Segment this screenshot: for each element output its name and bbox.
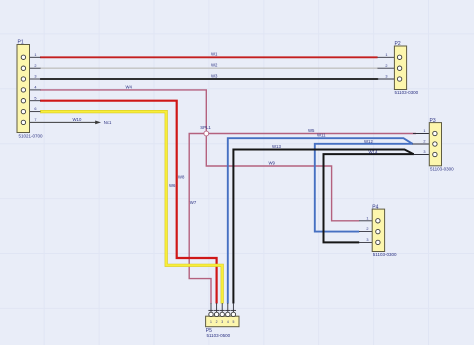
svg-text:2: 2	[366, 227, 368, 231]
svg-text:Nc1: Nc1	[104, 120, 112, 125]
svg-text:5: 5	[232, 320, 234, 324]
svg-text:4: 4	[227, 320, 229, 324]
svg-text:P1: P1	[18, 40, 24, 46]
svg-text:W11: W11	[317, 133, 326, 138]
svg-text:SPL1: SPL1	[200, 125, 211, 130]
svg-text:7: 7	[34, 118, 36, 122]
wire W6 (yellow) P1.6 to P5.3	[40, 112, 222, 304]
wire W8 (red) P1.5 to P5.2	[40, 101, 217, 304]
node NC1 (no-connect arrow)	[95, 120, 112, 125]
svg-text:W13: W13	[272, 144, 281, 149]
svg-text:P2: P2	[395, 41, 401, 47]
svg-text:51103-0300: 51103-0300	[373, 252, 397, 257]
svg-text:W4: W4	[126, 84, 133, 89]
svg-text:51021-0700: 51021-0700	[19, 134, 44, 139]
connector P2	[378, 41, 419, 95]
svg-text:1: 1	[385, 53, 387, 57]
svg-text:1: 1	[366, 216, 368, 220]
wire W1 (red) P1.1 to P2.1	[40, 52, 378, 58]
svg-text:4: 4	[34, 86, 36, 90]
svg-text:W12: W12	[364, 139, 373, 144]
svg-text:6: 6	[34, 107, 36, 111]
svg-text:2: 2	[385, 64, 387, 68]
svg-text:W2: W2	[211, 63, 218, 68]
svg-text:W6: W6	[169, 183, 176, 188]
svg-text:51103-0300: 51103-0300	[430, 166, 454, 171]
svg-text:1: 1	[34, 53, 36, 57]
svg-text:1: 1	[423, 129, 425, 133]
svg-text:W10: W10	[73, 117, 82, 122]
svg-text:W14: W14	[369, 150, 378, 155]
wire W14 (black) P4.3 to P3.3	[324, 150, 415, 243]
svg-text:2: 2	[423, 140, 425, 144]
svg-text:P4: P4	[372, 204, 378, 210]
svg-text:2: 2	[34, 64, 36, 68]
svg-text:W9: W9	[269, 160, 276, 165]
svg-text:W7: W7	[190, 200, 197, 205]
wire W5 (pink) SPL1 to P3.1	[206, 128, 416, 134]
connector P4	[359, 204, 397, 257]
connector P1	[17, 40, 43, 139]
connector P3	[413, 118, 455, 172]
svg-text:P3: P3	[430, 118, 436, 124]
svg-text:W8: W8	[178, 174, 185, 179]
svg-text:3: 3	[221, 320, 223, 324]
svg-text:3: 3	[366, 238, 368, 242]
wire W3 (black) P1.3 to P2.3	[40, 73, 378, 79]
svg-text:51103-0500: 51103-0500	[207, 333, 231, 338]
svg-text:1: 1	[210, 320, 212, 324]
svg-text:W3: W3	[211, 73, 218, 78]
svg-text:W1: W1	[211, 52, 218, 57]
wire W12 (blue) P4.2 to P3.2	[315, 139, 413, 231]
svg-text:2: 2	[216, 320, 218, 324]
wire W10 P1.7 to NC1	[26, 117, 96, 122]
svg-text:3: 3	[423, 150, 425, 154]
wire W9 (pink) SPL1 to P4.1	[206, 134, 359, 221]
svg-text:3: 3	[385, 75, 387, 79]
svg-text:W5: W5	[308, 128, 315, 133]
wire W7 (pink) SPL1 to P5.1	[189, 134, 211, 304]
svg-text:5: 5	[34, 96, 36, 100]
connector P5	[206, 303, 239, 338]
wire W2 (white) P1.2 to P2.2	[40, 63, 378, 69]
svg-text:3: 3	[34, 75, 36, 79]
svg-text:51103-0300: 51103-0300	[395, 90, 419, 95]
splice SPL1	[200, 125, 211, 136]
wire W13 (black) P5.5 to P3.3	[233, 144, 413, 304]
wire W4 (pink) P1.4 to SPL1	[40, 84, 206, 133]
wire W11 (blue) P5.4 to P3.2	[228, 133, 413, 304]
